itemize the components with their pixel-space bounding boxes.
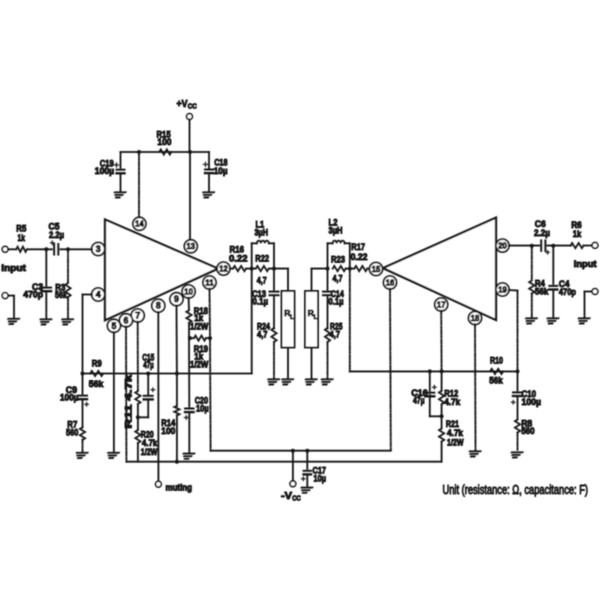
svg-text:560: 560 <box>521 426 535 436</box>
svg-text:3: 3 <box>96 244 101 254</box>
svg-text:100µ: 100µ <box>60 392 78 402</box>
svg-text:Unit (resistance: Ω, capacitan: Unit (resistance: Ω, capacitance: F) <box>443 483 589 497</box>
svg-text:1k: 1k <box>18 233 26 243</box>
svg-text:R10: R10 <box>490 356 503 366</box>
svg-text:3µH: 3µH <box>329 226 343 236</box>
svg-text:1/2W: 1/2W <box>447 438 464 448</box>
svg-text:47µ: 47µ <box>413 396 425 406</box>
svg-text:L: L <box>290 314 294 321</box>
svg-text:4.7k: 4.7k <box>447 428 464 438</box>
svg-text:R17: R17 <box>351 242 365 252</box>
svg-text:R23: R23 <box>331 254 345 264</box>
svg-text:+V: +V <box>177 99 188 110</box>
svg-text:4,7: 4,7 <box>333 274 343 284</box>
svg-text:9: 9 <box>174 294 179 304</box>
svg-text:0.1µ: 0.1µ <box>329 297 344 307</box>
svg-text:0.1µ: 0.1µ <box>253 297 269 307</box>
svg-text:8: 8 <box>156 301 161 311</box>
svg-text:14: 14 <box>135 219 144 229</box>
svg-text:5: 5 <box>111 321 116 331</box>
svg-text:10µ: 10µ <box>214 166 228 176</box>
svg-text:100: 100 <box>157 137 171 147</box>
svg-text:470p: 470p <box>559 287 576 297</box>
svg-text:560: 560 <box>66 428 78 438</box>
svg-text:47µ: 47µ <box>143 360 153 370</box>
svg-text:1/2W: 1/2W <box>141 447 158 457</box>
svg-text:7: 7 <box>135 311 140 321</box>
svg-text:470p: 470p <box>23 289 43 299</box>
svg-text:4.7k: 4.7k <box>444 397 461 407</box>
svg-text:56k: 56k <box>89 379 104 389</box>
svg-text:R11 4.7k: R11 4.7k <box>124 373 134 428</box>
svg-text:0.22: 0.22 <box>351 252 368 262</box>
svg-text:4,7: 4,7 <box>330 330 341 340</box>
svg-text:1/2W: 1/2W <box>190 321 209 331</box>
svg-text:6: 6 <box>124 315 129 325</box>
svg-text:L: L <box>314 314 318 321</box>
svg-text:56k: 56k <box>489 375 503 385</box>
svg-text:10µ: 10µ <box>196 404 209 414</box>
svg-text:input: input <box>1 263 26 273</box>
svg-text:4,7: 4,7 <box>257 330 268 340</box>
svg-text:muting: muting <box>166 483 193 493</box>
svg-text:10: 10 <box>184 286 193 296</box>
svg-text:17: 17 <box>437 299 446 309</box>
svg-text:1/2W: 1/2W <box>190 360 209 370</box>
svg-text:CC: CC <box>292 494 301 503</box>
svg-text:input: input <box>574 259 597 269</box>
svg-text:56k: 56k <box>535 286 549 296</box>
svg-text:20: 20 <box>498 241 507 251</box>
svg-text:4: 4 <box>96 290 101 300</box>
svg-text:13: 13 <box>187 241 196 251</box>
svg-text:12: 12 <box>219 264 228 274</box>
svg-text:10µ: 10µ <box>314 474 327 484</box>
svg-text:19: 19 <box>498 284 507 294</box>
svg-text:2.2µ: 2.2µ <box>49 230 64 240</box>
svg-text:CC: CC <box>188 102 197 111</box>
svg-text:100: 100 <box>161 426 175 436</box>
svg-text:100µ: 100µ <box>95 166 114 176</box>
svg-text:3µH: 3µH <box>255 228 269 238</box>
svg-text:11: 11 <box>205 277 214 287</box>
svg-text:2.2µ: 2.2µ <box>534 228 550 238</box>
svg-text:-V: -V <box>281 491 292 502</box>
svg-text:R9: R9 <box>92 359 102 369</box>
svg-text:1k: 1k <box>573 229 582 239</box>
svg-text:15: 15 <box>372 264 381 274</box>
svg-text:0.22: 0.22 <box>229 254 248 264</box>
svg-text:18: 18 <box>471 313 480 323</box>
svg-text:100µ: 100µ <box>522 397 542 407</box>
svg-text:56k: 56k <box>55 290 68 300</box>
svg-text:4,7: 4,7 <box>257 276 267 286</box>
svg-text:16: 16 <box>386 277 395 287</box>
svg-text:R22: R22 <box>255 254 269 264</box>
